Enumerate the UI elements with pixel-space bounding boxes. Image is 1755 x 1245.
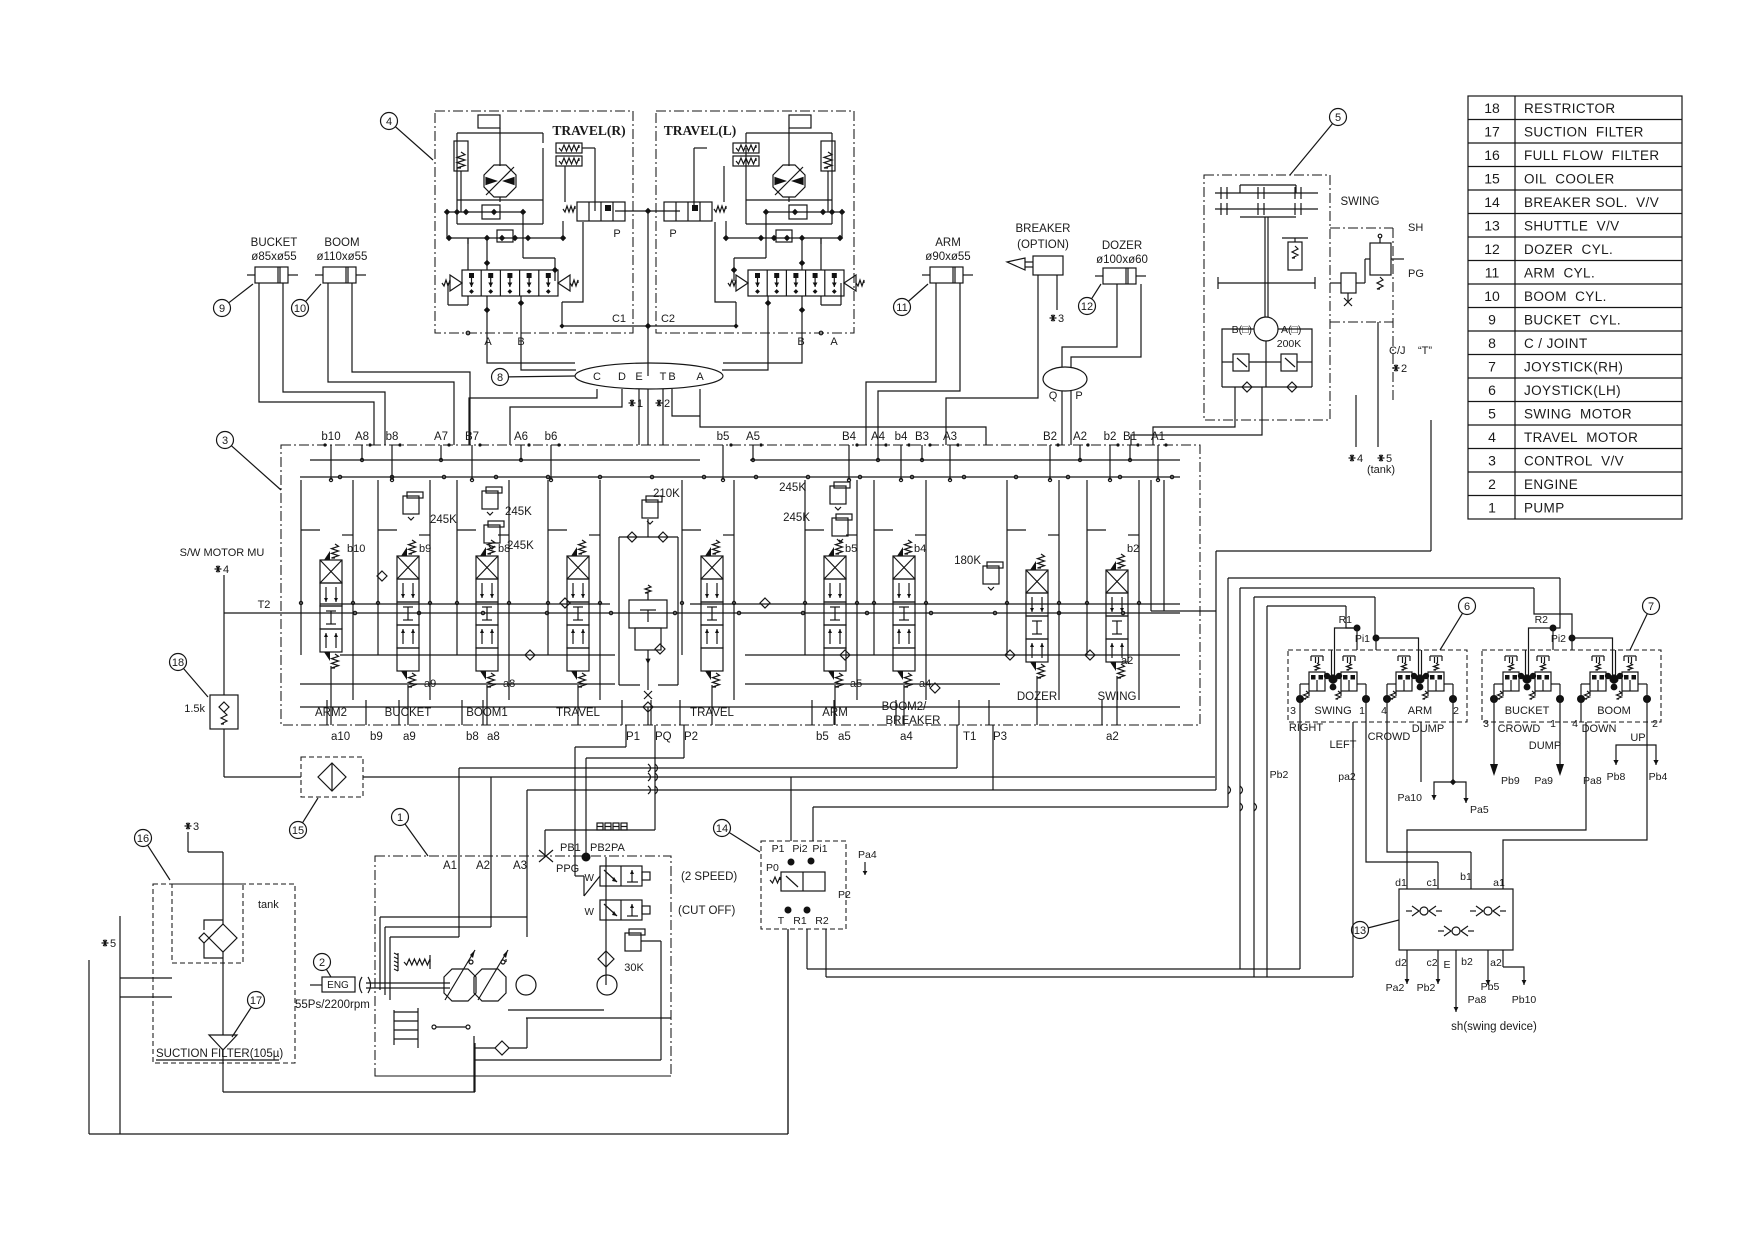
- svg-text:A6: A6: [514, 431, 528, 443]
- svg-text:2: 2: [664, 398, 670, 410]
- svg-text:PG: PG: [1408, 268, 1424, 280]
- svg-text:PB1: PB1: [560, 842, 581, 854]
- svg-text:1: 1: [637, 398, 643, 410]
- svg-text:b9: b9: [370, 731, 383, 743]
- svg-text:(CUT OFF): (CUT OFF): [678, 905, 735, 917]
- svg-text:7: 7: [1488, 358, 1496, 374]
- svg-text:12: 12: [1484, 241, 1500, 257]
- svg-text:S/W MOTOR MU: S/W MOTOR MU: [180, 547, 265, 559]
- svg-text:DOZER CYL.: DOZER CYL.: [1524, 242, 1613, 257]
- svg-text:P: P: [1075, 390, 1082, 402]
- svg-text:A2: A2: [1073, 431, 1087, 443]
- svg-text:8: 8: [497, 372, 503, 384]
- svg-text:SUCTION FILTER(105µ): SUCTION FILTER(105µ): [156, 1048, 283, 1060]
- svg-text:(OPTION): (OPTION): [1017, 239, 1069, 251]
- svg-text:1: 1: [1359, 705, 1365, 717]
- svg-text:R1: R1: [793, 915, 807, 927]
- svg-text:14: 14: [716, 823, 728, 835]
- svg-text:R2: R2: [1535, 614, 1549, 626]
- svg-text:BOOM: BOOM: [1597, 705, 1631, 717]
- svg-text:RESTRICTOR: RESTRICTOR: [1524, 101, 1616, 116]
- svg-text:9: 9: [1488, 311, 1496, 327]
- svg-text:3: 3: [193, 821, 199, 833]
- svg-text:b8: b8: [466, 731, 479, 743]
- svg-text:Pa2: Pa2: [1386, 982, 1405, 994]
- svg-text:RIGHT: RIGHT: [1289, 722, 1324, 734]
- svg-text:a9: a9: [403, 731, 416, 743]
- svg-text:ARM: ARM: [935, 237, 961, 249]
- svg-text:10: 10: [1484, 288, 1500, 304]
- svg-text:P2: P2: [838, 889, 851, 901]
- svg-text:P1: P1: [772, 843, 785, 855]
- svg-text:b5: b5: [816, 731, 829, 743]
- svg-text:E: E: [1443, 959, 1450, 971]
- svg-text:SWING: SWING: [1314, 705, 1351, 717]
- svg-text:Pa9: Pa9: [1534, 775, 1553, 787]
- svg-text:A: A: [696, 371, 704, 383]
- svg-text:b10: b10: [347, 543, 365, 555]
- svg-text:b2: b2: [1104, 431, 1117, 443]
- svg-text:12: 12: [1081, 301, 1093, 313]
- svg-text:TRAVEL(L): TRAVEL(L): [664, 123, 737, 138]
- svg-text:(tank): (tank): [1367, 464, 1395, 476]
- svg-text:Pi2: Pi2: [792, 843, 807, 855]
- svg-text:Pb2: Pb2: [1270, 769, 1289, 781]
- svg-text:a4: a4: [900, 731, 913, 743]
- svg-text:ø110xø55: ø110xø55: [317, 251, 368, 263]
- svg-text:17: 17: [250, 995, 262, 1007]
- svg-text:SWING MOTOR: SWING MOTOR: [1524, 406, 1632, 421]
- svg-text:T2: T2: [258, 599, 271, 611]
- svg-text:“T”: “T”: [1418, 345, 1432, 357]
- svg-text:Pi1: Pi1: [812, 843, 827, 855]
- svg-text:C: C: [593, 371, 601, 383]
- svg-text:180K: 180K: [954, 555, 981, 567]
- svg-text:BUCKET CYL.: BUCKET CYL.: [1524, 312, 1621, 327]
- svg-text:JOYSTICK(RH): JOYSTICK(RH): [1524, 359, 1623, 374]
- svg-text:Pa5: Pa5: [1470, 804, 1489, 816]
- svg-text:11: 11: [1485, 264, 1500, 280]
- svg-text:Pa10: Pa10: [1397, 792, 1422, 804]
- svg-text:10: 10: [294, 303, 306, 315]
- svg-text:SH: SH: [1408, 222, 1423, 234]
- svg-text:A: A: [484, 336, 492, 348]
- svg-text:245K: 245K: [507, 540, 534, 552]
- svg-text:d1: d1: [1395, 877, 1407, 889]
- svg-text:ENG: ENG: [327, 980, 349, 991]
- svg-text:Pa4: Pa4: [858, 849, 877, 861]
- svg-text:sh(swing device): sh(swing device): [1451, 1021, 1537, 1033]
- svg-text:A8: A8: [355, 431, 369, 443]
- svg-text:A3: A3: [513, 860, 527, 872]
- svg-text:a2: a2: [1121, 655, 1133, 667]
- svg-text:SHUTTLE V/V: SHUTTLE V/V: [1524, 218, 1620, 233]
- svg-text:Pb8: Pb8: [1607, 771, 1626, 783]
- svg-text:B2: B2: [1043, 431, 1057, 443]
- svg-text:(2 SPEED): (2 SPEED): [681, 871, 737, 883]
- svg-text:2: 2: [319, 957, 325, 969]
- svg-text:A: A: [830, 336, 838, 348]
- svg-text:P: P: [613, 228, 620, 240]
- svg-text:6: 6: [1488, 382, 1496, 398]
- svg-text:tank: tank: [258, 899, 279, 911]
- svg-text:B: B: [797, 336, 804, 348]
- svg-text:17: 17: [1484, 123, 1500, 139]
- svg-text:A1: A1: [443, 860, 457, 872]
- svg-text:Pb10: Pb10: [1512, 994, 1537, 1006]
- svg-text:A4: A4: [871, 431, 886, 443]
- svg-text:b2: b2: [1127, 543, 1139, 555]
- svg-text:210K: 210K: [653, 488, 680, 500]
- svg-text:3: 3: [1290, 705, 1296, 717]
- svg-text:16: 16: [137, 833, 149, 845]
- svg-text:BREAKER: BREAKER: [886, 715, 941, 727]
- svg-text:a8: a8: [487, 731, 500, 743]
- svg-text:3: 3: [1488, 452, 1496, 468]
- svg-text:a2: a2: [1106, 731, 1119, 743]
- svg-text:Pb9: Pb9: [1501, 775, 1520, 787]
- svg-text:1: 1: [1488, 499, 1496, 515]
- svg-text:30K: 30K: [624, 962, 644, 974]
- svg-text:P0: P0: [766, 862, 779, 874]
- svg-text:2: 2: [1488, 476, 1496, 492]
- svg-text:ø100xø60: ø100xø60: [1096, 254, 1148, 266]
- svg-text:C1: C1: [612, 313, 626, 325]
- svg-text:B3: B3: [915, 431, 929, 443]
- svg-text:13: 13: [1354, 925, 1366, 937]
- svg-text:OIL COOLER: OIL COOLER: [1524, 171, 1615, 186]
- svg-text:P: P: [669, 228, 676, 240]
- svg-text:8: 8: [1488, 335, 1496, 351]
- svg-text:13: 13: [1484, 217, 1500, 233]
- svg-text:Pb4: Pb4: [1649, 771, 1668, 783]
- svg-text:A3: A3: [943, 431, 957, 443]
- svg-text:A7: A7: [434, 431, 448, 443]
- svg-text:b8: b8: [386, 431, 399, 443]
- svg-text:b6: b6: [545, 431, 558, 443]
- svg-text:Pb2: Pb2: [1417, 982, 1436, 994]
- svg-text:D: D: [618, 371, 626, 383]
- svg-text:CROWD: CROWD: [1368, 731, 1411, 743]
- svg-text:15: 15: [292, 825, 304, 837]
- svg-text:BREAKER SOL. V/V: BREAKER SOL. V/V: [1524, 195, 1659, 210]
- svg-text:b10: b10: [321, 431, 340, 443]
- svg-text:B4: B4: [842, 431, 857, 443]
- svg-text:A2: A2: [476, 860, 490, 872]
- svg-text:b4: b4: [914, 543, 926, 555]
- svg-text:TRAVEL(R): TRAVEL(R): [552, 123, 625, 138]
- svg-text:4: 4: [223, 564, 229, 576]
- svg-text:200K: 200K: [1277, 338, 1302, 350]
- svg-text:W: W: [585, 873, 595, 884]
- svg-text:T: T: [778, 915, 785, 927]
- svg-text:ENGINE: ENGINE: [1524, 477, 1578, 492]
- svg-text:5: 5: [110, 938, 116, 950]
- svg-text:SUCTION FILTER: SUCTION FILTER: [1524, 124, 1644, 139]
- svg-text:ø85xø55: ø85xø55: [251, 251, 296, 263]
- svg-text:TRAVEL MOTOR: TRAVEL MOTOR: [1524, 430, 1638, 445]
- svg-text:BUCKET: BUCKET: [1505, 705, 1550, 717]
- svg-text:6: 6: [1464, 601, 1470, 613]
- svg-text:d2: d2: [1395, 957, 1407, 969]
- svg-text:C / JOINT: C / JOINT: [1524, 336, 1588, 351]
- svg-text:4: 4: [1381, 705, 1387, 717]
- svg-text:E: E: [635, 371, 642, 383]
- svg-text:3: 3: [222, 435, 228, 447]
- svg-text:15: 15: [1484, 170, 1500, 186]
- svg-text:JOYSTICK(LH): JOYSTICK(LH): [1524, 383, 1621, 398]
- svg-text:55Ps/2200rpm: 55Ps/2200rpm: [295, 999, 370, 1011]
- svg-text:9: 9: [219, 303, 225, 315]
- svg-text:PA: PA: [611, 842, 626, 854]
- svg-text:CROWD: CROWD: [1498, 723, 1541, 735]
- svg-text:b2: b2: [1461, 956, 1473, 968]
- svg-text:1: 1: [1550, 718, 1556, 730]
- svg-text:Q: Q: [1049, 390, 1058, 402]
- svg-text:B: B: [668, 371, 675, 383]
- svg-text:2: 2: [1652, 718, 1658, 730]
- svg-text:UP: UP: [1630, 732, 1645, 744]
- svg-text:ø90xø55: ø90xø55: [925, 251, 970, 263]
- svg-text:14: 14: [1484, 194, 1500, 210]
- svg-text:2: 2: [1453, 705, 1459, 717]
- svg-text:3: 3: [1483, 718, 1489, 730]
- svg-text:BUCKET: BUCKET: [251, 237, 298, 249]
- svg-text:A(□): A(□): [1281, 324, 1301, 336]
- svg-text:BOOM CYL.: BOOM CYL.: [1524, 289, 1607, 304]
- svg-text:P2: P2: [684, 731, 698, 743]
- svg-text:c1: c1: [1426, 877, 1437, 889]
- svg-text:PUMP: PUMP: [1524, 500, 1565, 515]
- svg-text:C/J: C/J: [1389, 345, 1406, 357]
- svg-text:c2: c2: [1426, 957, 1437, 969]
- svg-text:C2: C2: [661, 313, 675, 325]
- svg-text:R1: R1: [1339, 614, 1353, 626]
- svg-text:4: 4: [1357, 453, 1363, 465]
- svg-text:T: T: [660, 371, 667, 383]
- svg-text:BREAKER: BREAKER: [1016, 223, 1071, 235]
- svg-text:DUMP: DUMP: [1529, 740, 1561, 752]
- svg-text:b5: b5: [845, 543, 857, 555]
- svg-text:Pa8: Pa8: [1468, 994, 1487, 1006]
- svg-text:4: 4: [386, 116, 392, 128]
- svg-text:FULL FLOW FILTER: FULL FLOW FILTER: [1524, 148, 1660, 163]
- svg-text:Pb5: Pb5: [1481, 981, 1500, 993]
- svg-text:18: 18: [172, 657, 184, 669]
- svg-text:18: 18: [1484, 100, 1500, 116]
- svg-text:4: 4: [1488, 429, 1496, 445]
- svg-text:1: 1: [397, 812, 403, 824]
- svg-text:b1: b1: [1460, 871, 1472, 883]
- svg-text:B1: B1: [1123, 431, 1137, 443]
- svg-text:ARM CYL.: ARM CYL.: [1524, 265, 1595, 280]
- svg-text:11: 11: [896, 302, 907, 314]
- svg-text:2: 2: [1401, 363, 1407, 375]
- svg-text:CONTROL V/V: CONTROL V/V: [1524, 453, 1624, 468]
- svg-text:16: 16: [1484, 147, 1500, 163]
- svg-text:5: 5: [1488, 405, 1496, 421]
- svg-text:PQ: PQ: [655, 731, 672, 743]
- svg-text:245K: 245K: [783, 512, 810, 524]
- svg-text:DUMP: DUMP: [1412, 723, 1444, 735]
- svg-text:A5: A5: [746, 431, 760, 443]
- svg-text:P3: P3: [993, 731, 1007, 743]
- svg-text:PPG: PPG: [556, 863, 579, 875]
- svg-text:T1: T1: [963, 731, 976, 743]
- svg-text:4: 4: [1572, 718, 1578, 730]
- svg-text:1.5k: 1.5k: [184, 703, 205, 715]
- svg-text:B7: B7: [465, 431, 479, 443]
- svg-text:a5: a5: [838, 731, 851, 743]
- svg-text:5: 5: [1335, 112, 1341, 124]
- svg-text:R2: R2: [815, 915, 829, 927]
- svg-text:B(□): B(□): [1232, 324, 1252, 336]
- svg-text:SWING: SWING: [1341, 196, 1380, 208]
- svg-text:b4: b4: [895, 431, 908, 443]
- svg-text:W: W: [585, 907, 595, 918]
- svg-text:BOOM: BOOM: [324, 237, 359, 249]
- svg-text:245K: 245K: [430, 514, 457, 526]
- svg-text:245K: 245K: [779, 482, 806, 494]
- svg-text:ARM: ARM: [1408, 705, 1432, 717]
- svg-text:a10: a10: [331, 731, 350, 743]
- svg-text:7: 7: [1648, 601, 1654, 613]
- svg-text:P1: P1: [626, 731, 640, 743]
- svg-text:3: 3: [1058, 313, 1064, 325]
- svg-text:PB2: PB2: [590, 842, 611, 854]
- svg-text:b5: b5: [717, 431, 730, 443]
- svg-text:a2: a2: [1490, 957, 1502, 969]
- svg-text:DOWN: DOWN: [1582, 723, 1617, 735]
- svg-text:DOZER: DOZER: [1102, 240, 1142, 252]
